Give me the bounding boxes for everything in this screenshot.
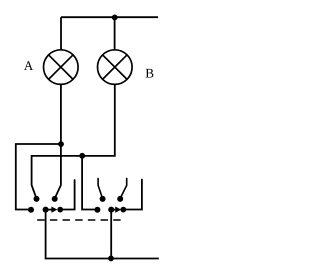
- wire right bus to stub: [123, 180, 142, 210]
- wire top supply line: [61, 16, 158, 18]
- svg-text:B: B: [145, 65, 154, 80]
- contact dot S2b upper: [117, 196, 123, 202]
- wire lamp A bottom drop with switch lever S1b: [55, 85, 61, 198]
- node right bus contact 3: [120, 207, 126, 213]
- switch lever S2b stub: [120, 178, 127, 198]
- wire left bus arrow lead: [46, 209, 52, 211]
- wire left bus to stub: [60, 180, 74, 210]
- node junction on lamp A wire: [58, 141, 64, 147]
- arrow right moving contact: [115, 207, 121, 213]
- wire lamp B bottom drop, horizontal run, with switch lever S1a: [32, 85, 115, 198]
- node right bus contact 2: [108, 207, 114, 213]
- arrow left moving contact: [51, 207, 57, 213]
- lamp A: [44, 50, 79, 85]
- node left bus contact 2: [43, 207, 49, 213]
- node left bus contact 1: [28, 207, 34, 213]
- node bottom supply junction: [108, 256, 114, 262]
- wire lamp A top drop: [60, 17, 62, 49]
- node junction top B: [112, 15, 118, 21]
- wire branch down to right bus: [82, 156, 97, 210]
- contact dot S1b upper: [52, 196, 58, 202]
- lamp B: [98, 50, 133, 85]
- wire lamp B top drop: [114, 17, 116, 49]
- wire left drop to bottom supply: [46, 210, 159, 259]
- mechanical link dashed: [37, 219, 120, 221]
- wire branch left to bottom bus: [16, 144, 61, 210]
- switch lever S2a stub: [98, 178, 102, 198]
- wire right bus arrow lead: [111, 209, 115, 211]
- wire right drop to bottom supply: [110, 210, 112, 259]
- node junction on horizontal run: [79, 153, 85, 159]
- node right bus contact 1: [94, 207, 100, 213]
- contact dot S1a upper: [34, 196, 40, 202]
- node left bus contact 3: [57, 207, 63, 213]
- svg-text:A: A: [24, 58, 34, 73]
- contact dot S2a upper: [100, 196, 106, 202]
